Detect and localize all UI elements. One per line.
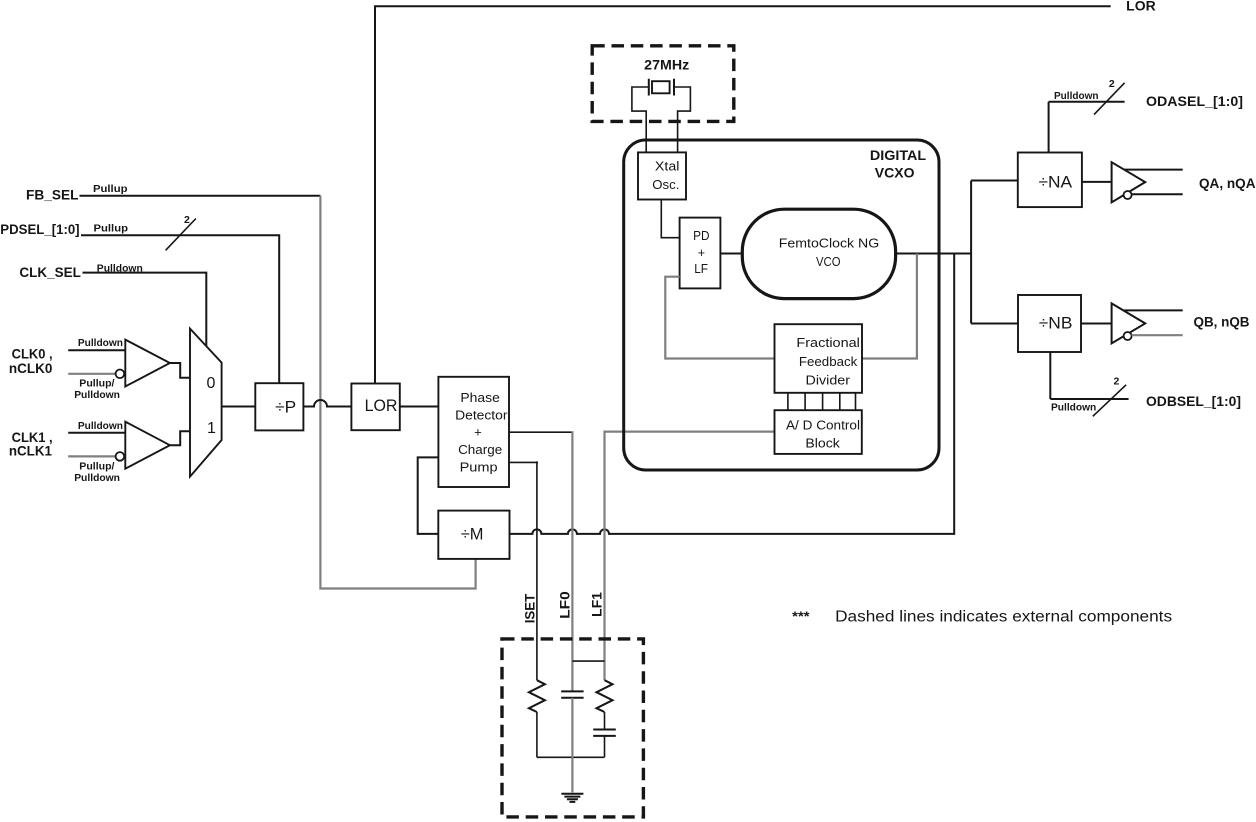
svg-text:CLK_SEL: CLK_SEL	[19, 265, 81, 280]
wire nCLK1 input (grey)	[68, 455, 115, 457]
wire divider NA to output buffer A	[1082, 181, 1112, 183]
wire divider NB to output buffer B	[1081, 323, 1112, 325]
inverting bubble nQA	[1124, 191, 1132, 199]
svg-text:PDSEL_[1:0]: PDSEL_[1:0]	[0, 222, 79, 237]
buffer U1 CLK0 input	[125, 340, 170, 387]
inverting bubble nQB	[1124, 332, 1132, 340]
svg-text:CLK0 ,: CLK0 ,	[12, 347, 53, 362]
wire junction to output dividers	[971, 181, 1018, 324]
wire PDSEL to divider P	[81, 235, 279, 383]
bus slash 2 ODBSEL	[1093, 375, 1126, 416]
wire LF0 capacitor to ground (grey)	[571, 698, 573, 793]
wire crystal right lead	[674, 87, 690, 152]
svg-text:FB_SEL: FB_SEL	[26, 188, 79, 203]
svg-text:Block: Block	[805, 436, 840, 451]
node CLK0,nCLK0 labels	[9, 347, 53, 376]
svg-text:2: 2	[184, 214, 190, 226]
svg-text:***: ***	[792, 609, 810, 624]
svg-text:+: +	[698, 245, 705, 260]
pin label Pulldown (CLK1)	[78, 420, 123, 432]
wire QB output	[1124, 309, 1183, 311]
svg-text:Pump: Pump	[460, 459, 498, 474]
wire crystal left lead	[632, 87, 649, 152]
wire LOR to phase detector	[400, 406, 439, 408]
capacitor C LF1	[593, 730, 616, 736]
bus slash 2 ODASEL	[1094, 78, 1125, 115]
node LF1 label (rotated)	[590, 592, 605, 617]
block DIGITAL VCXO outline	[624, 140, 939, 470]
wire LF1 capacitor to rail	[604, 736, 606, 757]
wire VCO to fractional divider (grey)	[862, 254, 917, 359]
node ODBSEL_[1:0] label	[1146, 394, 1241, 409]
wire LF0 from charge pump (grey)	[509, 431, 574, 691]
svg-text:Xtal: Xtal	[655, 158, 680, 173]
svg-text:2: 2	[1109, 78, 1115, 90]
node LF0 label (rotated)	[558, 591, 573, 619]
wire CLK1 input	[68, 432, 125, 434]
wire buffer U1 output to mux	[170, 363, 190, 378]
node CLK1,nCLK1 labels	[9, 430, 53, 459]
block PD+LF	[680, 218, 721, 289]
svg-text:ISET: ISET	[522, 593, 537, 623]
svg-text:nCLK1: nCLK1	[9, 444, 52, 459]
svg-text:Pullup: Pullup	[93, 183, 128, 195]
wire LOR net to top-right	[375, 6, 1111, 383]
svg-text:LF0: LF0	[558, 591, 573, 619]
wire bridge LF0 to LF1	[572, 660, 604, 662]
svg-text:÷M: ÷M	[461, 525, 484, 544]
svg-text:÷P: ÷P	[275, 397, 296, 416]
svg-text:Osc.: Osc.	[652, 177, 679, 192]
node ISET label (rotated)	[522, 593, 537, 623]
wire VCO output	[896, 253, 972, 255]
svg-text:27MHz: 27MHz	[644, 58, 689, 73]
dashed box external loop filter	[502, 639, 643, 817]
svg-text:QA, nQA: QA, nQA	[1199, 176, 1256, 191]
svg-text:Pulldown: Pulldown	[78, 337, 123, 349]
inverting bubble on nCLK0	[116, 370, 125, 379]
svg-text:÷NB: ÷NB	[1039, 314, 1073, 333]
value label 27MHz	[644, 58, 689, 73]
pin label Pulldown (ODASEL)	[1054, 90, 1099, 102]
wire PD+LF to VCO	[720, 253, 742, 255]
wire nQA output	[1132, 193, 1183, 195]
ground	[561, 794, 583, 802]
svg-text:FemtoClock NG: FemtoClock NG	[779, 236, 879, 251]
wire CLK0 input	[68, 349, 125, 351]
note external components	[792, 609, 1172, 626]
svg-text:PD: PD	[693, 228, 709, 243]
svg-text:Detector: Detector	[455, 407, 508, 422]
svg-text:VCXO: VCXO	[875, 165, 915, 181]
svg-text:÷NA: ÷NA	[1039, 173, 1073, 192]
pin label Pullup/Pulldown (nCLK0)	[74, 378, 120, 401]
wire ISET from charge pump	[509, 461, 538, 680]
svg-text:1: 1	[207, 420, 216, 437]
node LOR label	[1126, 0, 1156, 14]
wire divider P output to LOR (crossover hump)	[303, 400, 351, 407]
wire CLK_SEL to mux select	[83, 273, 207, 347]
svg-text:Feedback: Feedback	[799, 354, 858, 369]
svg-text:Dashed lines indicates externa: Dashed lines indicates external componen…	[835, 609, 1172, 626]
block divider NA	[1018, 153, 1082, 208]
node CLK_SEL label	[19, 262, 142, 280]
resistor R LF1	[597, 680, 613, 712]
divider M block	[438, 511, 509, 559]
node QA,nQA label	[1199, 176, 1256, 191]
wire ISET resistor to rail	[536, 712, 538, 757]
svg-text:ODBSEL_[1:0]: ODBSEL_[1:0]	[1146, 394, 1241, 409]
svg-text:Pullup/: Pullup/	[79, 461, 114, 473]
wire Xtal Osc to PD+LF	[661, 200, 679, 238]
block divider NB	[1018, 295, 1081, 352]
pin label Pulldown (ODBSEL)	[1051, 401, 1096, 413]
LOR block	[351, 384, 399, 431]
wire nQB output (grey)	[1132, 334, 1183, 336]
wire VCO feedback to divider M (3 crossover humps)	[510, 254, 955, 534]
svg-text:DIGITAL: DIGITAL	[870, 147, 927, 163]
bottom rail	[537, 756, 605, 758]
svg-text:Pulldown: Pulldown	[74, 472, 120, 484]
block FemtoClock NG VCO	[742, 209, 895, 298]
divider P block	[255, 383, 303, 430]
svg-text:Phase: Phase	[460, 390, 500, 405]
wire divider M output to phase detector loop	[418, 457, 439, 534]
crystal X1	[649, 79, 674, 96]
node PDSEL_[1:0] label	[0, 222, 128, 237]
inverting bubble on nCLK1	[116, 452, 125, 461]
wire LF1 from A/D control block (grey)	[605, 432, 775, 681]
node QB,nQB label	[1194, 315, 1250, 330]
wire FB_SEL horizontal	[80, 195, 321, 197]
wires fractional divider to A/D control (5 taps)	[788, 393, 856, 410]
block Xtal Osc	[638, 152, 686, 199]
svg-text:2: 2	[1114, 375, 1120, 387]
svg-text:VCO: VCO	[816, 254, 841, 269]
capacitor C LF0	[561, 691, 583, 697]
wire fractional divider to PD+LF (grey)	[665, 277, 774, 359]
pin label Pulldown (CLK0)	[78, 337, 123, 349]
svg-text:QB, nQB: QB, nQB	[1194, 315, 1250, 330]
output buffer B	[1112, 303, 1146, 343]
wire ODBSEL to divider NB	[1050, 352, 1128, 399]
node ODASEL_[1:0] label	[1146, 94, 1243, 109]
wire QA output	[1124, 169, 1183, 171]
mux clock select	[190, 329, 222, 477]
output buffer A	[1112, 162, 1146, 202]
svg-text:Pulldown: Pulldown	[1051, 401, 1096, 413]
svg-text:Pulldown: Pulldown	[1054, 90, 1099, 102]
svg-text:LOR: LOR	[365, 396, 398, 415]
block A/D control	[775, 410, 862, 454]
svg-text:ODASEL_[1:0]: ODASEL_[1:0]	[1146, 94, 1243, 109]
wire ODASEL to divider NA	[1049, 102, 1125, 153]
resistor R ISET	[529, 680, 545, 712]
svg-text:LF1: LF1	[590, 592, 605, 617]
svg-text:Pulldown: Pulldown	[78, 420, 123, 432]
dashed box external crystal	[592, 46, 734, 122]
svg-text:0: 0	[207, 375, 216, 392]
svg-text:Pullup/: Pullup/	[79, 378, 114, 390]
svg-text:Pulldown: Pulldown	[74, 389, 120, 401]
block fractional feedback divider	[775, 324, 863, 393]
svg-text:Charge: Charge	[458, 442, 502, 457]
phase detector + charge pump block	[438, 377, 509, 487]
svg-text:+: +	[474, 424, 482, 439]
svg-text:A/ D Control: A/ D Control	[786, 417, 860, 432]
wire buffer U2 output to mux	[170, 431, 190, 445]
pin label Pullup/Pulldown (nCLK1)	[74, 461, 120, 484]
svg-text:Pullup: Pullup	[94, 222, 129, 234]
svg-text:Fractional: Fractional	[796, 335, 860, 350]
svg-text:nCLK0: nCLK0	[9, 361, 53, 376]
wire FB_SEL feedback to divider M (grey)	[320, 196, 475, 589]
node FB_SEL label	[26, 183, 128, 203]
wire LF1 resistor to capacitor	[604, 712, 606, 730]
svg-text:LF: LF	[694, 261, 708, 276]
buffer U2 CLK1 input	[125, 422, 170, 469]
wire mux output to divider P	[222, 406, 256, 408]
bus slash 2 on PDSEL	[166, 214, 196, 251]
svg-text:Divider: Divider	[806, 372, 851, 387]
wire nCLK0 input (grey)	[68, 373, 115, 375]
svg-text:LOR: LOR	[1126, 0, 1156, 14]
